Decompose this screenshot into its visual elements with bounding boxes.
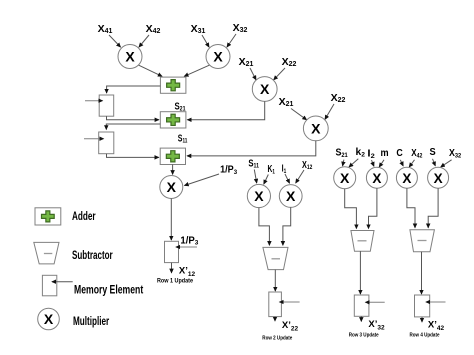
svg-text:Adder: Adder xyxy=(72,211,96,223)
svg-text:Multiplier: Multiplier xyxy=(73,316,110,328)
wire k2 to U8 xyxy=(349,159,358,167)
stub into M2 xyxy=(84,138,104,140)
legend multiplier symbol xyxy=(38,308,60,330)
output arrow M5 xyxy=(360,316,362,321)
wire m to U9 xyxy=(379,160,384,167)
svg-text:m: m xyxy=(381,147,389,159)
wire A3 to multiplier U5 xyxy=(172,165,174,175)
wire X21 to U3 xyxy=(250,68,256,80)
wire A2 to memory M2 xyxy=(106,124,160,129)
legend adder symbol xyxy=(35,208,61,225)
svg-text:S: S xyxy=(430,146,436,158)
wire X12 to U7 xyxy=(296,170,304,183)
wire I2 to U9 xyxy=(372,160,374,166)
output arrow M4 xyxy=(274,317,276,321)
subtractor SB3 xyxy=(410,230,435,252)
output arrow M3 xyxy=(171,263,173,273)
multiplier U2 xyxy=(206,45,230,69)
svg-text:X: X xyxy=(340,170,350,186)
wire X22 to U4 xyxy=(325,104,334,119)
wire U1 to adder A1 xyxy=(139,65,162,76)
stub into M3 xyxy=(176,246,197,248)
memory M4 xyxy=(269,292,282,317)
wire X42 to U1 xyxy=(139,35,149,47)
svg-text:X: X xyxy=(402,171,411,186)
svg-text:X: X xyxy=(44,311,54,327)
wire X22 to U3 xyxy=(274,68,285,80)
subtractor SB1 xyxy=(263,247,288,269)
stub into M6 xyxy=(426,301,446,303)
multiplier U1 xyxy=(118,45,142,69)
legend stub into memory xyxy=(52,281,73,283)
stub into M4 xyxy=(280,301,300,303)
legend memory symbol xyxy=(42,275,56,296)
wire X21 to U4 xyxy=(291,109,307,120)
svg-text:X: X xyxy=(125,49,135,65)
multiplier U8 xyxy=(334,167,356,189)
wire X41 to U1 xyxy=(109,35,121,47)
output arrow M6 xyxy=(421,317,423,322)
wire SB1 to memory M4 xyxy=(274,270,276,291)
wire SB2 to memory M5 xyxy=(359,251,361,294)
multiplier U11 xyxy=(428,167,449,188)
wire U10 to subtractor SB3 xyxy=(407,188,415,228)
memory M2 xyxy=(99,132,114,154)
wire S11 to U6 xyxy=(254,170,256,184)
memory M1 xyxy=(99,95,114,116)
stub into M1 xyxy=(85,100,103,102)
wire U8 to subtractor SB2 xyxy=(345,189,357,229)
svg-text:X: X xyxy=(213,49,223,65)
multiplier U4 xyxy=(303,116,328,141)
svg-text:Row 4 Update: Row 4 Update xyxy=(410,333,440,339)
svg-text:X: X xyxy=(254,188,264,204)
wire C to U10 xyxy=(400,160,403,166)
svg-text:Row 1 Update: Row 1 Update xyxy=(157,277,193,284)
wire I1 to U7 xyxy=(285,174,290,183)
wire U6 to subtractor SB1 xyxy=(259,208,270,246)
multiplier U6 xyxy=(247,184,270,207)
svg-text:Subtractor: Subtractor xyxy=(72,250,113,262)
wire M2 to adder A3 xyxy=(107,154,159,158)
legend subtractor symbol xyxy=(34,242,59,264)
wire K1 to U6 xyxy=(264,175,269,185)
wire U11 to subtractor SB3 xyxy=(428,188,438,228)
svg-text:X: X xyxy=(260,81,270,97)
svg-text:Memory Element: Memory Element xyxy=(74,285,143,297)
wire U2 to adder A1 xyxy=(184,65,209,76)
wire S to U11 xyxy=(433,159,436,166)
multiplier U3 xyxy=(252,77,277,102)
memory M3 xyxy=(165,241,179,262)
wire X32 to U11 xyxy=(441,160,452,167)
svg-text:X: X xyxy=(372,171,381,186)
wire U5 to memory M3 xyxy=(170,199,172,241)
svg-text:X: X xyxy=(167,179,177,195)
wire X42 to U10 xyxy=(409,160,414,167)
multiplier U10 xyxy=(396,167,417,188)
wire X31 to U2 xyxy=(202,35,209,47)
svg-text:C: C xyxy=(396,147,403,159)
adder A2 xyxy=(160,112,186,128)
wire U3 to adder A2 xyxy=(187,101,264,119)
svg-text:X: X xyxy=(286,188,296,204)
wire A1 to memory M1 xyxy=(107,86,161,93)
stub into M5 xyxy=(366,301,385,303)
wire S21 to U8 xyxy=(343,160,344,166)
svg-text:Row 3 Update: Row 3 Update xyxy=(349,333,379,339)
adder A1 xyxy=(160,77,186,93)
wire 1/P3 to U5 xyxy=(185,174,220,186)
wire SB3 to memory M6 xyxy=(421,252,423,294)
subtractor SB2 xyxy=(351,231,374,252)
adder A3 xyxy=(160,148,185,164)
memory M6 xyxy=(415,295,430,317)
wire U4 to adder A3 xyxy=(187,141,316,156)
wire U9 to subtractor SB2 xyxy=(369,188,377,228)
multiplier U5 xyxy=(160,176,183,199)
wire M1 to adder A2 xyxy=(107,116,159,120)
svg-text:X: X xyxy=(434,171,443,186)
wire U7 to subtractor SB1 xyxy=(283,207,291,245)
multiplier U9 xyxy=(366,167,387,188)
svg-text:Row 2 Update: Row 2 Update xyxy=(262,336,292,342)
svg-text:X: X xyxy=(311,121,321,137)
multiplier U7 xyxy=(279,185,302,208)
wire X32 to U2 xyxy=(227,34,236,47)
memory M5 xyxy=(354,295,369,316)
